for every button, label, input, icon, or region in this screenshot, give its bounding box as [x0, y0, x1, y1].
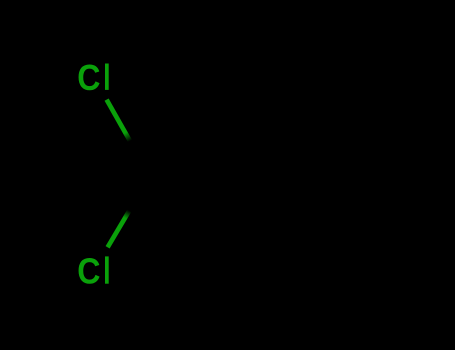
bond: bottom C-Cl half-bond (green, fades into black carbon half) — [108, 211, 130, 248]
svg-text:C: C — [77, 252, 100, 292]
svg-text:C: C — [77, 58, 100, 98]
bond: top C-Cl half-bond (green, fades into black carbon half) — [107, 100, 130, 141]
atom label Cl (bottom chlorine): letter l — [105, 256, 109, 283]
atom label Cl (top chlorine): letter l — [105, 64, 109, 90]
